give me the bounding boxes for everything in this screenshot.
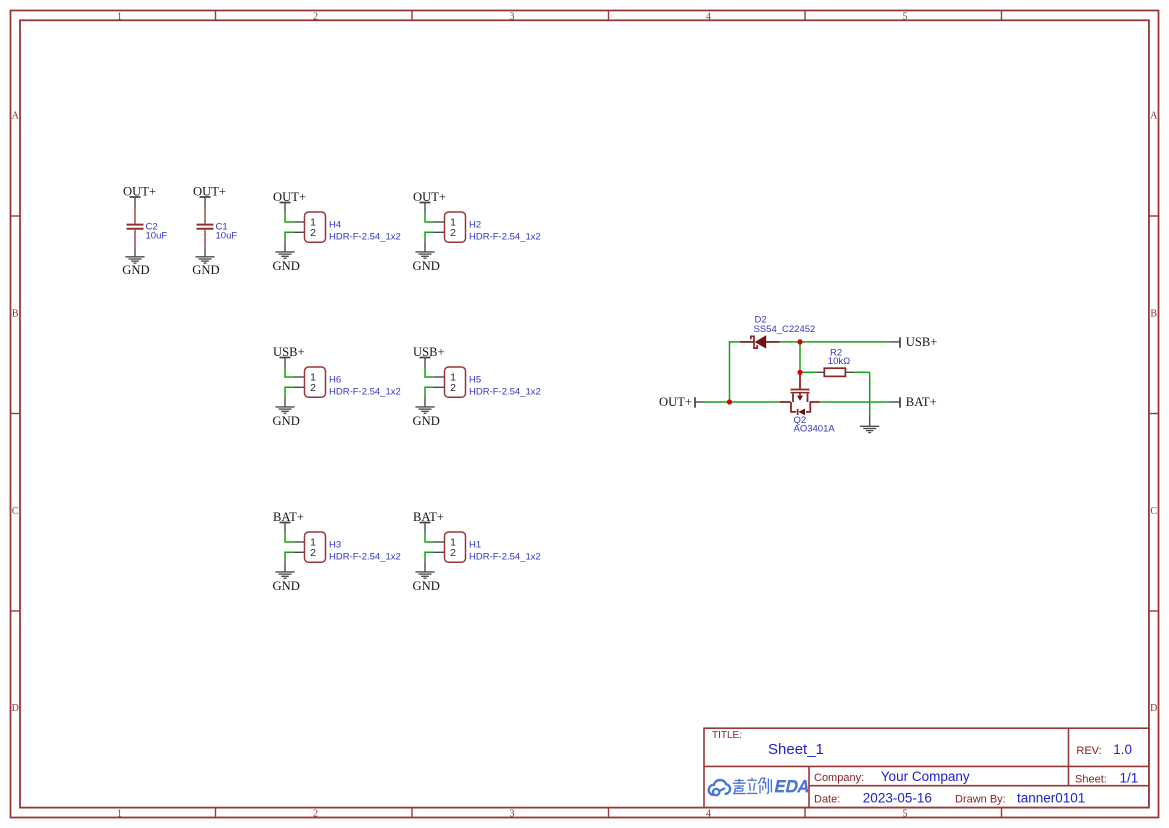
svg-text:4: 4 xyxy=(706,809,711,820)
svg-text:HDR-F-2.54_1x2: HDR-F-2.54_1x2 xyxy=(329,551,401,562)
svg-text:D: D xyxy=(1150,703,1157,714)
svg-text:Company:: Company: xyxy=(814,772,864,784)
ground xyxy=(413,562,440,593)
header H6 xyxy=(294,367,326,397)
svg-text:tanner0101: tanner0101 xyxy=(1017,790,1085,805)
svg-text:GND: GND xyxy=(273,259,300,273)
svg-text:2: 2 xyxy=(450,547,456,559)
net flag USB+ xyxy=(890,335,938,349)
svg-text:Drawn By:: Drawn By: xyxy=(955,793,1006,805)
svg-text:H5: H5 xyxy=(469,375,481,386)
svg-text:HDR-F-2.54_1x2: HDR-F-2.54_1x2 xyxy=(329,231,401,242)
ground xyxy=(122,247,149,277)
wire xyxy=(285,533,294,543)
svg-text:Sheet_1: Sheet_1 xyxy=(768,741,824,758)
diode D2 xyxy=(740,335,780,348)
svg-text:H1: H1 xyxy=(469,540,481,551)
wire R2 to gnd branch xyxy=(854,371,870,373)
svg-text:2: 2 xyxy=(313,809,318,820)
wire Q2 to BAT+ xyxy=(820,401,890,403)
svg-text:B: B xyxy=(12,308,19,319)
junction node USB+ xyxy=(797,339,802,344)
wire xyxy=(425,368,434,378)
svg-text:GND: GND xyxy=(122,263,149,277)
net flag OUT+ xyxy=(413,190,446,213)
wire OUT+ to Q2 drain xyxy=(705,401,781,403)
svg-text:H4: H4 xyxy=(329,220,341,231)
svg-text:D: D xyxy=(12,703,19,714)
svg-text:5: 5 xyxy=(903,809,908,820)
transistor Q2 xyxy=(780,372,820,415)
net flag USB+ xyxy=(273,345,305,368)
svg-text:2: 2 xyxy=(310,547,316,559)
svg-text:10uF: 10uF xyxy=(146,231,168,242)
wire node to node xyxy=(799,342,801,372)
wire to R2 xyxy=(800,371,816,373)
svg-text:GND: GND xyxy=(413,579,440,593)
ground xyxy=(273,397,300,428)
wire diode to USB+ xyxy=(780,341,890,343)
svg-text:H6: H6 xyxy=(329,375,341,386)
header H5 xyxy=(434,367,466,397)
net flag OUT+ xyxy=(659,395,705,409)
net flag OUT+ xyxy=(193,184,226,207)
logo text EDA xyxy=(775,780,809,792)
net flag OUT+ xyxy=(273,190,306,213)
svg-text:1: 1 xyxy=(117,11,122,22)
capacitor C1 xyxy=(197,207,214,247)
net flag USB+ xyxy=(413,345,445,368)
svg-text:Your Company: Your Company xyxy=(881,769,970,784)
svg-text:REV:: REV: xyxy=(1076,745,1101,757)
wire vertical OUT+ up to diode xyxy=(729,342,731,402)
net flag BAT+ xyxy=(890,395,937,409)
ground xyxy=(860,416,879,432)
wire xyxy=(285,213,294,223)
net flag BAT+ xyxy=(273,510,304,533)
wire diode left xyxy=(729,341,740,343)
svg-text:Date:: Date: xyxy=(814,793,840,805)
svg-text:HDR-F-2.54_1x2: HDR-F-2.54_1x2 xyxy=(469,386,541,397)
svg-text:GND: GND xyxy=(413,414,440,428)
wire xyxy=(285,368,294,378)
svg-text:AO3401A: AO3401A xyxy=(794,424,836,435)
svg-text:2023-05-16: 2023-05-16 xyxy=(863,790,932,805)
wire xyxy=(285,387,294,397)
svg-text:GND: GND xyxy=(413,259,440,273)
svg-text:2: 2 xyxy=(313,11,318,22)
svg-text:GND: GND xyxy=(273,414,300,428)
svg-text:A: A xyxy=(12,110,20,121)
wire xyxy=(425,232,434,242)
net flag OUT+ xyxy=(123,184,156,207)
svg-text:B: B xyxy=(1150,308,1157,319)
svg-text:GND: GND xyxy=(273,579,300,593)
wire xyxy=(285,232,294,242)
svg-text:2: 2 xyxy=(310,382,316,394)
resistor R2 xyxy=(816,368,854,376)
svg-text:1/1: 1/1 xyxy=(1120,771,1139,786)
svg-text:2: 2 xyxy=(310,227,316,239)
svg-text:10kΩ: 10kΩ xyxy=(828,356,850,367)
svg-text:5: 5 xyxy=(903,11,908,22)
logo cloud xyxy=(709,780,730,795)
svg-text:Sheet:: Sheet: xyxy=(1075,774,1107,786)
svg-text:TITLE:: TITLE: xyxy=(712,730,742,741)
junction node OUT+ xyxy=(727,399,732,404)
header H1 xyxy=(434,532,466,562)
ground xyxy=(413,242,440,273)
ground xyxy=(273,562,300,593)
svg-text:3: 3 xyxy=(510,809,515,820)
svg-text:H2: H2 xyxy=(469,220,481,231)
capacitor C2 xyxy=(127,207,144,247)
svg-text:10uF: 10uF xyxy=(216,231,238,242)
svg-text:BAT+: BAT+ xyxy=(906,395,937,409)
svg-text:3: 3 xyxy=(510,11,515,22)
svg-text:2: 2 xyxy=(450,382,456,394)
svg-text:A: A xyxy=(1150,110,1158,121)
wire xyxy=(425,387,434,397)
svg-text:OUT+: OUT+ xyxy=(659,395,692,409)
logo text jialichuang xyxy=(733,778,772,794)
svg-text:H3: H3 xyxy=(329,540,341,551)
svg-text:C: C xyxy=(1150,506,1157,517)
header H4 xyxy=(294,212,326,242)
svg-text:HDR-F-2.54_1x2: HDR-F-2.54_1x2 xyxy=(329,386,401,397)
net flag BAT+ xyxy=(413,510,444,533)
svg-text:1.0: 1.0 xyxy=(1113,742,1132,757)
wire xyxy=(425,552,434,562)
svg-text:USB+: USB+ xyxy=(906,335,938,349)
svg-text:HDR-F-2.54_1x2: HDR-F-2.54_1x2 xyxy=(469,231,541,242)
svg-text:HDR-F-2.54_1x2: HDR-F-2.54_1x2 xyxy=(469,551,541,562)
wire vertical to gnd xyxy=(869,372,871,416)
ground xyxy=(192,247,219,277)
svg-text:2: 2 xyxy=(450,227,456,239)
wire xyxy=(425,213,434,223)
ground xyxy=(413,397,440,428)
wire xyxy=(285,552,294,562)
svg-text:4: 4 xyxy=(706,11,711,22)
svg-text:C: C xyxy=(12,506,19,517)
svg-text:SS54_C22452: SS54_C22452 xyxy=(754,324,816,335)
svg-text:1: 1 xyxy=(117,809,122,820)
title block xyxy=(704,728,1149,807)
junction node gate xyxy=(797,370,802,375)
header H2 xyxy=(434,212,466,242)
header H3 xyxy=(294,532,326,562)
svg-text:GND: GND xyxy=(192,263,219,277)
wire xyxy=(425,533,434,543)
ground xyxy=(273,242,300,273)
